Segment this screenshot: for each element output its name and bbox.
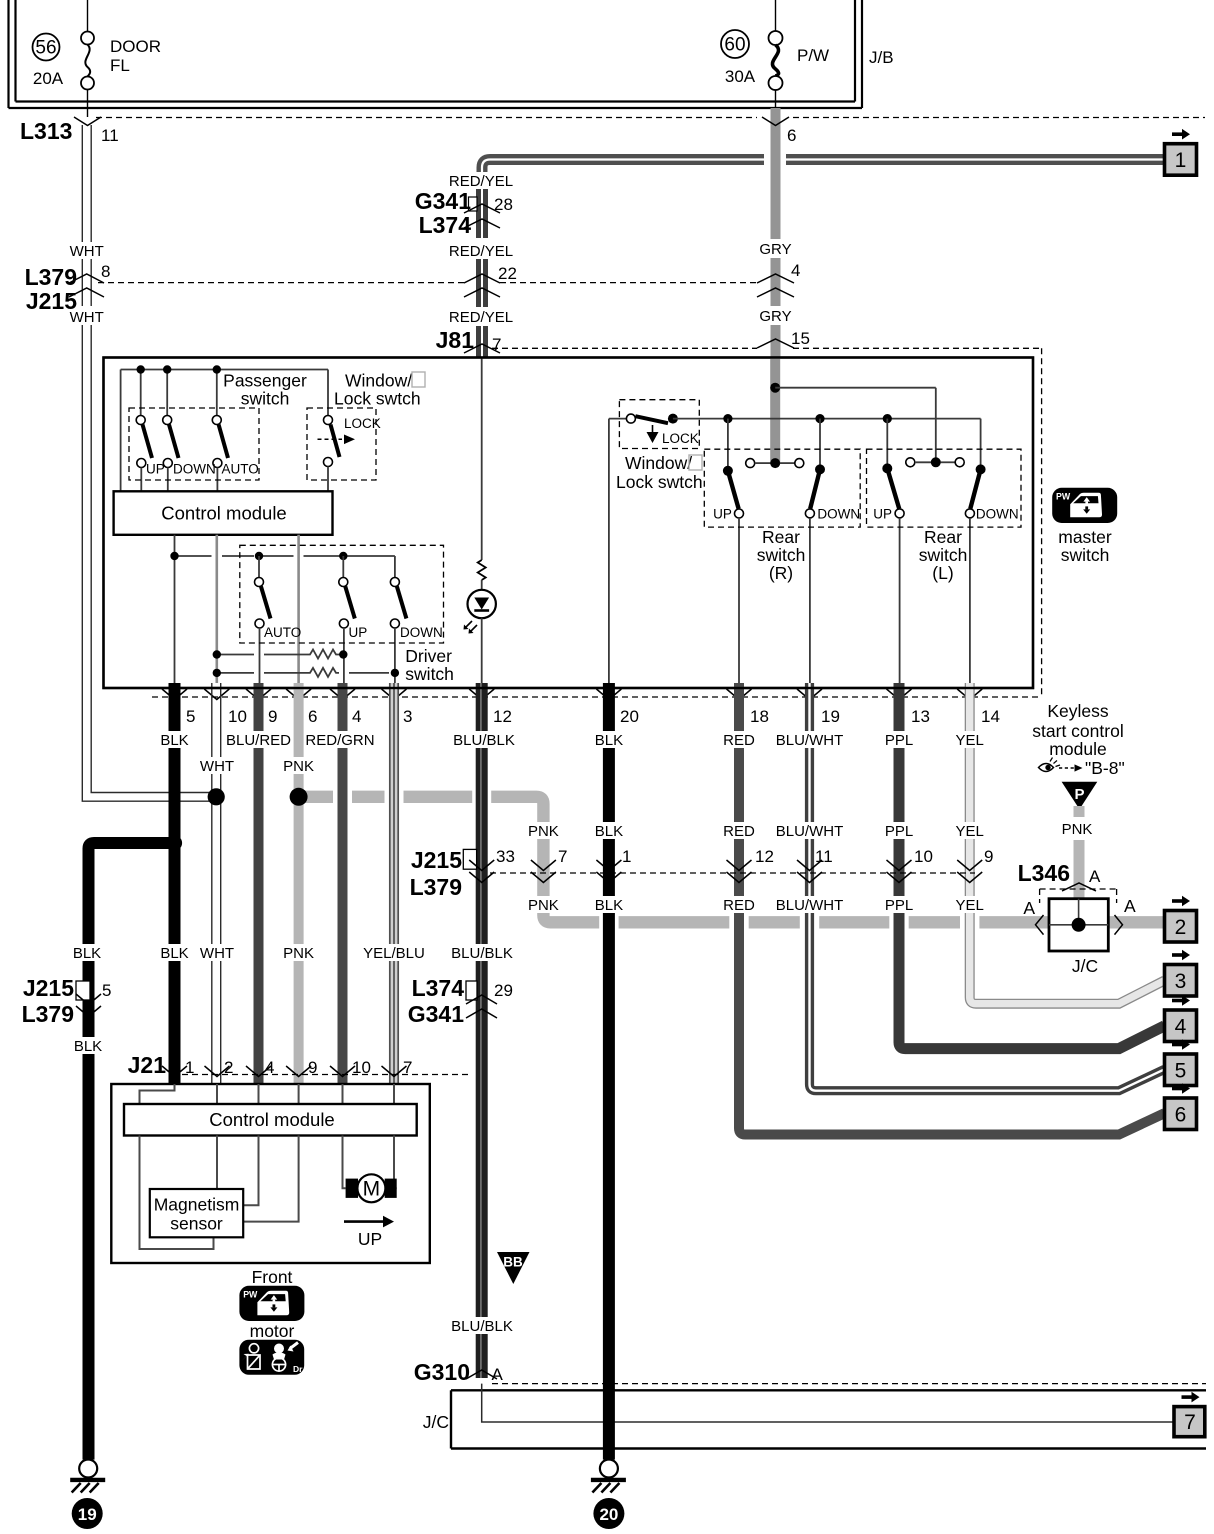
svg-text:master: master bbox=[1058, 527, 1112, 547]
wire BLU/RED from pin 9 to J21 pin 4 bbox=[254, 683, 264, 1084]
svg-text:28: 28 bbox=[494, 195, 513, 214]
window lock switch (left) bbox=[307, 370, 425, 492]
svg-text:BLK: BLK bbox=[74, 1038, 102, 1055]
svg-text:1: 1 bbox=[622, 847, 631, 866]
svg-text:Magnetism: Magnetism bbox=[154, 1195, 240, 1215]
master switch connector dashed outline bbox=[1041, 348, 1043, 697]
connector L374/G341 pin 29 bbox=[408, 975, 513, 1027]
passenger switch UP contact bbox=[136, 416, 152, 492]
svg-text:BLU/WHT: BLU/WHT bbox=[776, 732, 844, 749]
svg-text:AUTO: AUTO bbox=[264, 625, 301, 640]
passenger switch top bus bbox=[121, 370, 328, 492]
connector G341/L374 pin 28 marks bbox=[464, 204, 500, 228]
svg-text:YEL/BLU: YEL/BLU bbox=[363, 945, 425, 962]
resistor row 1 bbox=[217, 650, 343, 659]
control module pin to BLK column bbox=[175, 535, 255, 683]
svg-text:1: 1 bbox=[1175, 149, 1187, 172]
svg-text:A: A bbox=[1089, 867, 1101, 886]
svg-text:8: 8 bbox=[101, 262, 110, 281]
svg-text:BB: BB bbox=[503, 1255, 523, 1270]
svg-text:G341: G341 bbox=[408, 1001, 464, 1027]
svg-text:switch: switch bbox=[757, 545, 806, 565]
master switch box outline redraw bbox=[104, 358, 1034, 689]
power window master switch icon bbox=[1052, 488, 1117, 523]
svg-text:LOCK: LOCK bbox=[344, 416, 381, 431]
svg-text:P/W: P/W bbox=[797, 46, 829, 65]
svg-text:J/C: J/C bbox=[1072, 956, 1098, 976]
svg-text:BLU/WHT: BLU/WHT bbox=[776, 823, 844, 840]
connector J215/L379 pin 33 bbox=[410, 847, 515, 900]
svg-text:6: 6 bbox=[787, 126, 796, 145]
ground 20 bbox=[591, 1460, 626, 1530]
wire RED from pin 18 to connector 6 bbox=[739, 683, 1165, 1135]
wire RED/YEL vertical to J81 bbox=[476, 188, 488, 358]
svg-text:FL: FL bbox=[110, 56, 130, 75]
svg-text:L379: L379 bbox=[22, 1001, 74, 1027]
svg-text:WHT: WHT bbox=[200, 758, 234, 775]
svg-text:switch: switch bbox=[1061, 545, 1110, 565]
svg-text:A: A bbox=[492, 1365, 504, 1384]
svg-text:J215: J215 bbox=[23, 975, 74, 1001]
svg-text:RED/GRN: RED/GRN bbox=[305, 732, 374, 749]
off-page connector 6 bbox=[1165, 1083, 1197, 1129]
svg-text:18: 18 bbox=[750, 707, 769, 726]
svg-text:WHT: WHT bbox=[200, 945, 234, 962]
keyless module P triangle bbox=[1062, 782, 1098, 810]
svg-text:module: module bbox=[1049, 739, 1106, 759]
svg-text:PNK: PNK bbox=[528, 897, 559, 914]
off-page connector 7 bbox=[1174, 1392, 1205, 1437]
connector row J215/L379 marks bbox=[469, 860, 982, 883]
svg-text:Rear: Rear bbox=[762, 527, 800, 547]
svg-text:30A: 30A bbox=[725, 67, 756, 86]
svg-text:L313: L313 bbox=[20, 118, 72, 144]
svg-text:start control: start control bbox=[1032, 721, 1123, 741]
wire BLU/WHT from pin 19 to connector 5 bbox=[810, 683, 1165, 1091]
svg-text:PPL: PPL bbox=[885, 732, 913, 749]
svg-text:WHT: WHT bbox=[70, 309, 104, 326]
connector 4 marks on GRY bbox=[757, 274, 794, 297]
wire label BLU/BLK above G310 bbox=[450, 1317, 514, 1334]
svg-text:Driver: Driver bbox=[405, 646, 452, 666]
svg-text:3: 3 bbox=[1175, 970, 1187, 993]
svg-text:A: A bbox=[1023, 898, 1035, 918]
master switch connector pin row dashed line bbox=[152, 696, 1042, 698]
svg-text:PW: PW bbox=[243, 1290, 258, 1300]
svg-text:5: 5 bbox=[102, 981, 111, 1000]
svg-text:33: 33 bbox=[496, 847, 515, 866]
svg-text:G310: G310 bbox=[414, 1359, 470, 1385]
driver switch AUTO contact bbox=[255, 556, 302, 683]
svg-text:YEL: YEL bbox=[956, 823, 984, 840]
svg-text:7: 7 bbox=[403, 1058, 412, 1077]
svg-text:Window/: Window/ bbox=[625, 453, 692, 473]
svg-text:L379: L379 bbox=[25, 264, 77, 290]
junction on GRY feeding rear switches bbox=[770, 383, 780, 393]
svg-text:GRY: GRY bbox=[759, 308, 791, 325]
wire colour labels below pin row bbox=[159, 731, 985, 775]
svg-text:UP: UP bbox=[358, 1229, 382, 1249]
svg-text:DOWN: DOWN bbox=[173, 462, 216, 477]
svg-text:11: 11 bbox=[101, 126, 119, 145]
connector row G310 dashed line bbox=[492, 1383, 1206, 1385]
svg-text:Control module: Control module bbox=[209, 1109, 334, 1130]
keyless start control module note bbox=[1032, 701, 1124, 778]
svg-text:4: 4 bbox=[1175, 1015, 1187, 1038]
wire BLK from pin 5 to J21 pin 1 with branch to ground bbox=[169, 683, 181, 1084]
svg-text:J81: J81 bbox=[436, 327, 475, 353]
svg-text:DOWN: DOWN bbox=[400, 625, 443, 640]
BB option triangle bbox=[497, 1252, 530, 1284]
connector 15 mark on GRY bbox=[757, 339, 794, 348]
wire BLU/BLK thin into junction connector to 7 bbox=[482, 1384, 1174, 1422]
svg-text:20A: 20A bbox=[33, 69, 64, 88]
svg-text:Lock swtch: Lock swtch bbox=[334, 389, 421, 409]
svg-text:Passenger: Passenger bbox=[223, 371, 307, 391]
svg-text:7: 7 bbox=[1184, 1411, 1196, 1434]
crossing halos bbox=[333, 790, 979, 930]
front power window motor module box bbox=[111, 1084, 430, 1263]
svg-text:22: 22 bbox=[498, 264, 517, 283]
svg-text:7: 7 bbox=[492, 335, 501, 354]
rear switch (R) bbox=[704, 419, 860, 683]
connector L379/J215 pin 8 marks bbox=[69, 274, 104, 297]
svg-text:56: 56 bbox=[35, 38, 56, 59]
wire BLK from pin 20 to ground 20 bbox=[603, 683, 615, 1460]
junction connector box (bottom) bbox=[451, 1390, 1206, 1448]
junction connector J/C (L346) bbox=[1049, 899, 1108, 951]
svg-text:PNK: PNK bbox=[1062, 821, 1093, 838]
svg-text:29: 29 bbox=[494, 981, 513, 1000]
junction block J/B frame bbox=[9, 0, 863, 108]
svg-text:P: P bbox=[1074, 786, 1084, 803]
svg-text:10: 10 bbox=[352, 1058, 371, 1077]
resistor row 2 bbox=[217, 668, 389, 677]
svg-text:BLU/BLK: BLU/BLK bbox=[453, 732, 515, 749]
svg-text:(R): (R) bbox=[769, 563, 793, 583]
wire label RED/YEL (top) bbox=[449, 172, 515, 189]
connector 6 mark on GRY bbox=[762, 117, 789, 126]
svg-text:6: 6 bbox=[1175, 1103, 1187, 1126]
wire BLU/BLK from pin 12 to G310 bbox=[475, 683, 488, 1378]
ground 19 bbox=[70, 1460, 105, 1530]
svg-text:19: 19 bbox=[78, 1505, 97, 1524]
svg-text:4: 4 bbox=[791, 261, 800, 280]
wire WHT pair from pin 10 to J21 pin 2 bbox=[212, 683, 221, 1084]
svg-text:UP: UP bbox=[713, 507, 732, 522]
svg-text:9: 9 bbox=[984, 847, 993, 866]
svg-text:4: 4 bbox=[352, 707, 361, 726]
svg-text:9: 9 bbox=[308, 1058, 317, 1077]
wire RED/GRN from pin 4 to J21 pin 10 bbox=[338, 683, 348, 1084]
driver switch UP contact bbox=[339, 556, 367, 683]
WHT column inside box bbox=[216, 535, 219, 683]
BLK pin 20 column bbox=[609, 419, 627, 683]
off-page connector 3 bbox=[1165, 950, 1197, 996]
master switch pin row marks and numbers bbox=[162, 689, 982, 700]
svg-text:20: 20 bbox=[599, 1505, 618, 1524]
svg-text:2: 2 bbox=[224, 1058, 233, 1077]
svg-text:DOWN: DOWN bbox=[817, 507, 860, 522]
svg-text:Lock swtch: Lock swtch bbox=[616, 472, 703, 492]
svg-text:(L): (L) bbox=[932, 563, 953, 583]
svg-text:PW: PW bbox=[1056, 492, 1071, 502]
svg-text:12: 12 bbox=[755, 847, 774, 866]
svg-text:PNK: PNK bbox=[528, 823, 559, 840]
svg-text:L374: L374 bbox=[412, 975, 465, 1001]
svg-text:PNK: PNK bbox=[283, 945, 314, 962]
motor M bbox=[346, 1174, 397, 1202]
driver switch dashed box bbox=[240, 545, 444, 643]
svg-text:BLK: BLK bbox=[595, 823, 623, 840]
svg-text:switch: switch bbox=[405, 664, 454, 684]
off-page connector 4 bbox=[1165, 995, 1197, 1041]
svg-text:J21: J21 bbox=[128, 1052, 167, 1078]
svg-text:BLU/WHT: BLU/WHT bbox=[776, 897, 844, 914]
wire GRY from fuse 60 to master switch pin 15 bbox=[771, 108, 781, 358]
connector G341/L374 pin 28 square bbox=[469, 197, 478, 211]
magnetism sensor bbox=[150, 1189, 243, 1237]
connector L346 A mark bbox=[1062, 883, 1096, 891]
svg-text:DOWN: DOWN bbox=[976, 507, 1019, 522]
svg-text:5: 5 bbox=[186, 707, 195, 726]
svg-text:1: 1 bbox=[185, 1058, 194, 1077]
svg-text:M: M bbox=[363, 1178, 381, 1201]
connector 22 marks on RED/YEL bbox=[464, 274, 500, 297]
svg-text:UP: UP bbox=[349, 625, 368, 640]
rear switch (L) bbox=[867, 419, 1022, 683]
svg-text:6: 6 bbox=[308, 707, 317, 726]
svg-text:switch: switch bbox=[919, 545, 968, 565]
connector J21 marks and pin numbers bbox=[162, 1066, 407, 1077]
module pin stubs bbox=[140, 1084, 395, 1104]
wire YEL/BLU from pin 3 to J21 pin 7 bbox=[390, 683, 398, 1084]
svg-text:WHT: WHT bbox=[70, 243, 104, 260]
passenger switch AUTO contact bbox=[212, 416, 228, 492]
driver switch feed bus bbox=[263, 556, 395, 578]
svg-text:L346: L346 bbox=[1018, 860, 1070, 886]
power window master switch box bbox=[104, 358, 1034, 689]
svg-text:2: 2 bbox=[1175, 916, 1187, 939]
passenger switch DOWN contact bbox=[163, 416, 179, 492]
driver switch DOWN contact bbox=[390, 578, 442, 684]
svg-text:11: 11 bbox=[815, 847, 833, 866]
wire PNK from keyless module bbox=[1074, 806, 1085, 899]
off-page connector 2 bbox=[1165, 896, 1197, 942]
passenger switch dashed box bbox=[129, 408, 259, 480]
svg-text:UP: UP bbox=[146, 462, 165, 477]
svg-text:9: 9 bbox=[268, 707, 277, 726]
UP arrow bbox=[344, 1216, 394, 1249]
connector row J81 dashed line bbox=[492, 347, 1042, 349]
svg-text:J/B: J/B bbox=[869, 48, 894, 67]
wire BLK labels on ground branch bbox=[70, 944, 514, 962]
svg-text:switch: switch bbox=[241, 389, 290, 409]
svg-text:Front: Front bbox=[252, 1267, 293, 1287]
connector J81 pin 7 mark bbox=[464, 344, 500, 353]
connector row L313 dashed line bbox=[96, 117, 1205, 119]
svg-text:J215: J215 bbox=[411, 847, 462, 873]
module internal wires bbox=[140, 1136, 397, 1250]
rear switch bus bbox=[673, 419, 981, 465]
svg-text:L374: L374 bbox=[419, 212, 472, 238]
fuse 56 20A DOOR FL bbox=[33, 0, 162, 117]
svg-text:RED: RED bbox=[723, 823, 755, 840]
wire PNK branch and trunk to connector 2 bbox=[294, 683, 304, 1084]
svg-text:20: 20 bbox=[620, 707, 639, 726]
wire GRY inside master switch bbox=[770, 358, 780, 464]
connector L346 dashed outline bbox=[1040, 889, 1117, 903]
svg-text:BLK: BLK bbox=[160, 732, 188, 749]
driver side caution icon bbox=[239, 1340, 304, 1375]
svg-text:BLU/BLK: BLU/BLK bbox=[451, 1318, 513, 1335]
connector J215/L379 pin 5 bbox=[22, 975, 112, 1055]
power window front motor icon bbox=[239, 1286, 304, 1321]
LED indicator with resistor bbox=[464, 358, 496, 684]
connector row J215/L379 dashed line bbox=[490, 872, 975, 874]
svg-text:RED: RED bbox=[723, 732, 755, 749]
svg-text:5: 5 bbox=[1175, 1059, 1187, 1082]
svg-text:60: 60 bbox=[724, 35, 745, 56]
control module (master switch) bbox=[114, 491, 333, 535]
svg-text:BLK: BLK bbox=[595, 732, 623, 749]
control module (motor) bbox=[124, 1104, 417, 1136]
svg-text:A: A bbox=[1124, 896, 1136, 916]
window lock switch (right) bbox=[616, 400, 703, 492]
svg-text:RED/YEL: RED/YEL bbox=[449, 309, 513, 326]
svg-text:BLK: BLK bbox=[160, 945, 188, 962]
svg-text:PPL: PPL bbox=[885, 897, 913, 914]
PNK column inside box bbox=[297, 535, 300, 683]
svg-text:L379: L379 bbox=[410, 874, 462, 900]
svg-text:Control module: Control module bbox=[161, 503, 286, 524]
svg-text:AUTO: AUTO bbox=[222, 462, 259, 477]
svg-text:YEL: YEL bbox=[956, 732, 984, 749]
svg-text:15: 15 bbox=[791, 329, 810, 348]
connector J21 row bbox=[128, 1052, 472, 1078]
svg-text:12: 12 bbox=[493, 707, 512, 726]
svg-text:sensor: sensor bbox=[170, 1214, 223, 1234]
svg-text:7: 7 bbox=[558, 847, 567, 866]
svg-text:19: 19 bbox=[821, 707, 840, 726]
off-page connector 5 bbox=[1165, 1039, 1197, 1085]
svg-text:GRY: GRY bbox=[759, 241, 791, 258]
svg-text:LOCK: LOCK bbox=[662, 431, 699, 446]
svg-text:BLU/RED: BLU/RED bbox=[226, 732, 291, 749]
svg-text:DOOR: DOOR bbox=[110, 37, 161, 56]
svg-text:Window/: Window/ bbox=[345, 371, 412, 391]
off-page connector 1 bbox=[1165, 129, 1197, 175]
svg-text:RED/YEL: RED/YEL bbox=[449, 243, 513, 260]
svg-text:PNK: PNK bbox=[283, 758, 314, 775]
connector row L379/J215 dashed line bbox=[98, 282, 757, 284]
svg-text:10: 10 bbox=[228, 707, 247, 726]
svg-text:13: 13 bbox=[911, 707, 930, 726]
wire YEL from pin 14 to connector 3 bbox=[970, 683, 1165, 1004]
svg-text:motor: motor bbox=[250, 1321, 295, 1341]
wire WHT from L313 down and over to control module bbox=[82, 125, 214, 801]
svg-text:BLK: BLK bbox=[595, 897, 623, 914]
svg-text:BLK: BLK bbox=[73, 945, 101, 962]
svg-text:Keyless: Keyless bbox=[1047, 701, 1109, 721]
svg-text:G341: G341 bbox=[415, 188, 471, 214]
svg-text:14: 14 bbox=[981, 707, 1000, 726]
svg-text:RED: RED bbox=[723, 897, 755, 914]
svg-text:4: 4 bbox=[265, 1058, 274, 1077]
svg-text:YEL: YEL bbox=[956, 897, 984, 914]
svg-text:3: 3 bbox=[403, 707, 412, 726]
svg-text:UP: UP bbox=[873, 507, 892, 522]
svg-text:Dr: Dr bbox=[293, 1364, 303, 1374]
svg-text:"B-8": "B-8" bbox=[1085, 758, 1125, 778]
wire RED/YEL trunk to connector 1 bbox=[482, 160, 1165, 189]
svg-text:Rear: Rear bbox=[924, 527, 962, 547]
fuse 60 30A P/W bbox=[721, 0, 894, 108]
svg-text:J/C: J/C bbox=[423, 1412, 449, 1432]
connector L313 pin 11 mark bbox=[74, 117, 101, 126]
wire PPL from pin 13 to connector 4 bbox=[899, 683, 1165, 1049]
svg-text:BLU/BLK: BLU/BLK bbox=[451, 945, 513, 962]
svg-text:PPL: PPL bbox=[885, 823, 913, 840]
svg-text:10: 10 bbox=[914, 847, 933, 866]
